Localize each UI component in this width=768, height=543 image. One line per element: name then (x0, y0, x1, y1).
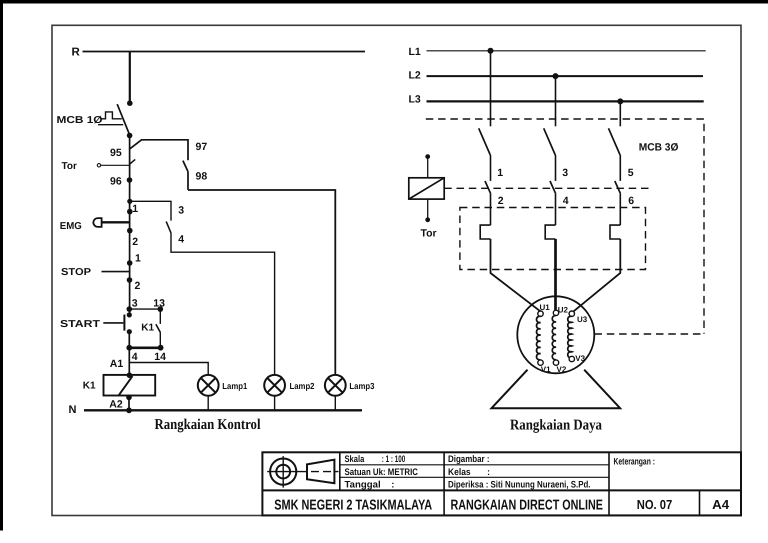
divider keterangan column (608, 452, 610, 515)
contact 3-4 NO blade (166, 222, 171, 234)
svg-text:K1: K1 (141, 323, 154, 334)
K1 main contact 5-6 blade (615, 181, 621, 194)
Tor device lower wire (427, 199, 429, 218)
junction dot A1 (127, 372, 133, 378)
Tor actuator stem line (101, 164, 131, 166)
motor coil 3 (568, 316, 572, 358)
svg-text:Rangkaian Daya: Rangkaian Daya (510, 417, 602, 433)
contactor coil K1 diagonal (119, 376, 133, 395)
lamp3 L3 indicator (325, 375, 346, 396)
svg-text:STOP: STOP (61, 267, 91, 278)
MCB pole 1 lower wire (490, 155, 492, 181)
svg-text:3: 3 (132, 298, 138, 310)
svg-text:96: 96 (110, 175, 122, 187)
STOP junction dot lower (127, 277, 133, 283)
K1 main contact 3-4 blade (550, 181, 556, 194)
EMG junction dot lower (127, 228, 133, 234)
junction dot node 1 top (127, 199, 132, 204)
Tor device lower terminal dot (425, 217, 430, 222)
lamp1 bottom wire (207, 396, 209, 411)
svg-text:Satuan Uk: METRIC: Satuan Uk: METRIC (345, 467, 419, 478)
wire START bottom to node 4 (128, 332, 130, 348)
svg-text:SMK NEGERI 2 TASIKMALAYA: SMK NEGERI 2 TASIKMALAYA (274, 498, 432, 514)
lamp2 bottom wire (274, 396, 276, 411)
Tor device body (409, 178, 444, 199)
K1 main contact 3-4 lower wire (555, 194, 557, 225)
svg-text:V3: V3 (575, 354, 585, 363)
svg-text:START: START (60, 319, 100, 330)
wire branch node1 to contact 3 (130, 201, 171, 220)
logo crosshair vertical (282, 456, 284, 488)
motor terminal V2 (553, 360, 558, 365)
svg-text:: 1 : 100: : 1 : 100 (382, 454, 406, 465)
wire 98 to lamp3 column (188, 190, 335, 375)
wire branch riser to contact 97 (130, 140, 188, 161)
motor terminal U3 (569, 311, 574, 316)
row line 1 (340, 464, 609, 466)
motor terminal U2 (553, 310, 558, 315)
svg-text:Tanggal :: Tanggal : (345, 480, 395, 491)
junction dot 96 (127, 177, 133, 183)
MCB 1 phase thermal trip symbol (101, 112, 122, 119)
Tor heater element pole 2 (545, 225, 555, 239)
wire node4 bar (thick) (129, 346, 161, 349)
motor dashed link to MCB box (595, 333, 705, 335)
logo crosshair horizontal (267, 471, 307, 473)
svg-text:L3: L3 (409, 93, 421, 105)
junction dot above MCB1 (127, 100, 133, 106)
motor coil 2 (552, 316, 556, 360)
svg-text:V2: V2 (557, 365, 567, 374)
svg-text:MCB 3Ø: MCB 3Ø (639, 141, 679, 153)
STOP junction dot upper (127, 260, 133, 266)
K1 main contact 1-2 blade (485, 181, 491, 194)
svg-text:R: R (72, 47, 81, 59)
wire L2 bus (427, 75, 704, 77)
junction dot on N (126, 407, 132, 413)
svg-text:14: 14 (154, 351, 166, 363)
svg-text:L1: L1 (409, 46, 421, 58)
svg-text:3: 3 (562, 167, 568, 179)
logo projection circle inner (276, 465, 290, 479)
MCB pole 2 blade (544, 128, 556, 155)
svg-text:1: 1 (497, 167, 503, 179)
svg-text:Digambar :: Digambar : (448, 454, 490, 465)
MCB pole 3 upper wire (619, 101, 621, 126)
svg-text:A4: A4 (712, 497, 730, 512)
wire node4 to coil A1 (128, 348, 130, 375)
Tor heater dashed box (460, 208, 646, 270)
top black bar (0, 0, 768, 4)
junction dot A2 (126, 395, 132, 401)
motor coil 1 (537, 316, 541, 360)
wire coil A2 to N (128, 396, 130, 411)
svg-text:4: 4 (178, 234, 184, 246)
Tor heater element pole 1 (480, 225, 490, 239)
svg-text:A2: A2 (109, 398, 123, 410)
logo frustum centerline (311, 471, 339, 473)
K1 main contact 1-2 lower wire (490, 194, 492, 225)
EMG junction dot upper (127, 209, 133, 215)
wire branch A1 to lamp1 (129, 363, 208, 375)
logo frustum (307, 460, 334, 484)
wire below contact 98 (187, 172, 189, 190)
motor body circle (517, 296, 594, 373)
junction dot node 3 (127, 306, 133, 312)
svg-text:U2: U2 (558, 306, 569, 315)
K1 aux contact blade (156, 324, 161, 332)
svg-text:MCB 1Ø: MCB 1Ø (57, 115, 103, 126)
svg-text:97: 97 (196, 141, 208, 153)
svg-text:Keterangan :: Keterangan : (614, 457, 656, 468)
lamp1 L1 indicator (198, 375, 219, 396)
svg-text:Lamp2: Lamp2 (290, 381, 315, 391)
junction dot L1 (488, 48, 494, 54)
junction dot L3 (617, 98, 623, 104)
motor stand trapezoid (492, 370, 621, 409)
lamp3 bottom wire (334, 396, 336, 411)
EMG stem (102, 221, 130, 223)
MCB pole 1 upper wire (490, 51, 492, 127)
svg-text:Rangkaian Kontrol: Rangkaian Kontrol (155, 417, 261, 433)
svg-text:1: 1 (135, 252, 141, 264)
Tor actuator stem circle (97, 164, 100, 167)
svg-text:Tor: Tor (421, 227, 437, 239)
svg-text:6: 6 (628, 195, 634, 207)
K1 aux contact lower wire (159, 333, 161, 348)
svg-text:3: 3 (178, 204, 184, 216)
MCB pole 2 lower wire (555, 155, 557, 181)
svg-text:U3: U3 (577, 315, 588, 324)
svg-text:Lamp1: Lamp1 (222, 381, 247, 391)
wire contact 4 to lamp2 column (171, 233, 275, 375)
svg-text:4: 4 (563, 195, 569, 207)
MCB 3 phase dashed enclosure (426, 119, 704, 334)
svg-text:Kelas :: Kelas : (448, 467, 490, 478)
K1 main contact 5-6 lower wire (619, 194, 621, 225)
svg-text:98: 98 (196, 170, 208, 182)
divider skala/digambar column (443, 452, 445, 515)
junction dot node 4 (126, 345, 132, 351)
junction dot 14 (158, 345, 164, 351)
svg-text:U1: U1 (540, 303, 551, 312)
left black bar (0, 0, 3, 531)
svg-text:RANGKAIAN DIRECT ONLINE: RANGKAIAN DIRECT ONLINE (450, 498, 603, 514)
contactor linkage dashed (444, 187, 651, 189)
divider NO07 and A4 (699, 490, 701, 515)
svg-text:EMG: EMG (60, 221, 82, 232)
MCB pole 3 lower wire (619, 155, 621, 181)
Tor NC contact blade tick (130, 159, 136, 164)
Tor heater element pole 3 (610, 225, 620, 239)
svg-text:Tor: Tor (62, 161, 77, 172)
junction dot 13 (158, 306, 164, 312)
svg-text:Diperiksa : Siti Nunung Nuraen: Diperiksa : Siti Nunung Nuraeni, S.Pd. (448, 480, 591, 491)
wire node3 to contact 13 (129, 308, 160, 310)
lamp2 L2 indicator (264, 375, 285, 396)
divider logo column (339, 452, 341, 490)
wire pole1 heater to motor U1 (491, 239, 541, 311)
junction dot L2 (553, 73, 559, 79)
svg-text:4: 4 (132, 351, 138, 363)
contactor coil K1 body (104, 375, 156, 396)
logo projection circle outer (270, 459, 296, 485)
wire main drop from R (129, 52, 131, 103)
svg-text:V1: V1 (541, 365, 551, 374)
wire L1 bus (427, 50, 706, 52)
row line 2 (340, 476, 609, 478)
K1 aux contact 13-14 upper wire (159, 309, 161, 324)
START stem (103, 322, 123, 324)
svg-text:Lamp3: Lamp3 (349, 381, 374, 391)
svg-text:N: N (69, 404, 77, 416)
MCB pole 3 blade (609, 128, 621, 155)
Tor device upper terminal dot (425, 154, 430, 159)
svg-text:2: 2 (132, 236, 138, 248)
Tor device upper wire (427, 158, 429, 178)
wire N bus (84, 409, 362, 411)
motor terminal V3 (569, 356, 574, 361)
svg-text:5: 5 (628, 167, 634, 179)
wire pole2 heater to motor U2 (thick) (554, 239, 557, 310)
Tor device diagonal (409, 178, 444, 199)
svg-text:Skala: Skala (345, 454, 365, 465)
Tor NO contact 97-98 blade (183, 161, 188, 172)
motor terminal U1 (538, 311, 543, 316)
svg-text:A1: A1 (110, 358, 124, 370)
MCB 1 phase breaker Q0 blade (117, 104, 129, 135)
svg-text:K1: K1 (83, 380, 96, 391)
svg-text:NO. 07: NO. 07 (637, 497, 673, 512)
wire pole3 heater to motor U3 (574, 239, 621, 311)
MCB pole 2 upper wire (555, 76, 557, 126)
wire main vertical upper (MCB to node 3) (129, 136, 131, 315)
STOP stem (102, 271, 130, 273)
EMG mushroom head (93, 218, 101, 227)
MCB 1 phase magnetic bar (98, 124, 123, 126)
svg-text:2: 2 (498, 195, 504, 207)
title block bottom row line (262, 489, 741, 491)
START plunger bar (123, 315, 125, 331)
wire L3 bus (427, 100, 704, 102)
svg-text:1: 1 (132, 203, 138, 215)
MCB pole 1 blade (479, 128, 491, 155)
svg-text:95: 95 (110, 147, 122, 159)
junction dot below MCB1 (127, 133, 133, 139)
svg-text:L2: L2 (409, 69, 421, 81)
START contact dot lower (127, 329, 132, 334)
motor terminal V1 (538, 360, 543, 365)
title block outer box (262, 452, 741, 515)
svg-text:2: 2 (135, 280, 141, 292)
wire R bus (83, 51, 366, 53)
START contact dot upper (127, 312, 132, 317)
